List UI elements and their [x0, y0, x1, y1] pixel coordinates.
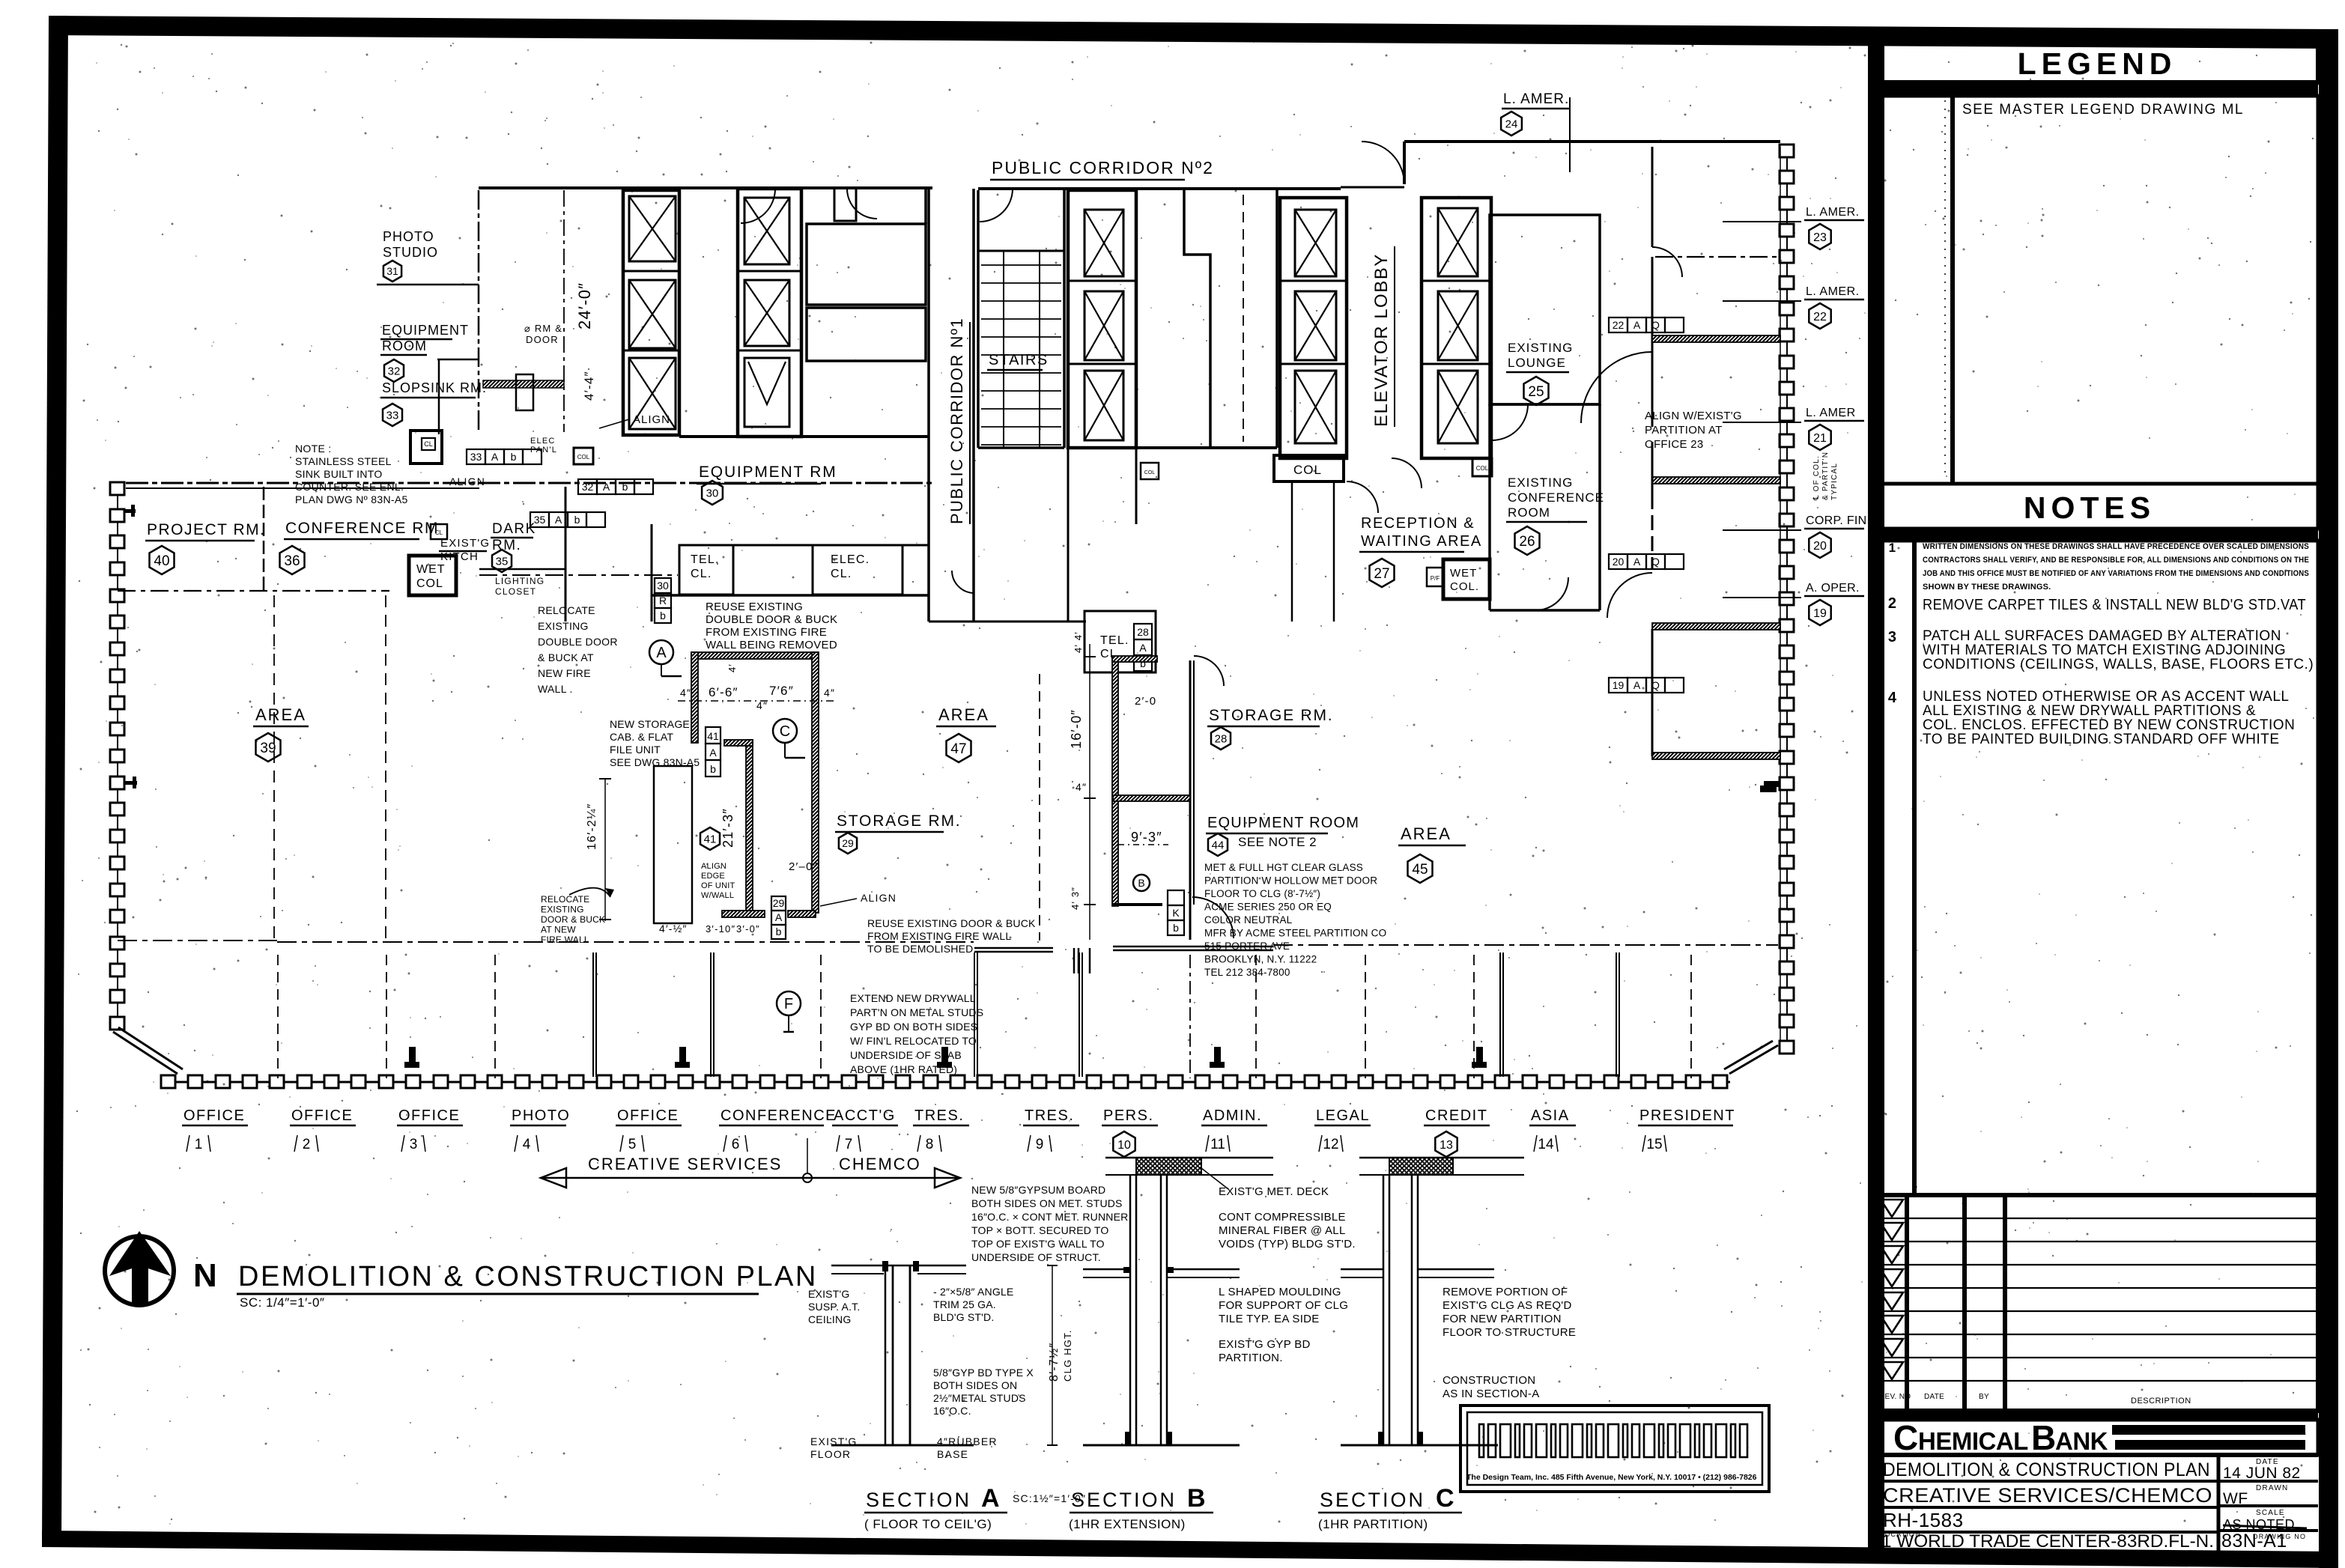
central bank C shaft 3	[1438, 371, 1478, 443]
svg-text:WET: WET	[416, 563, 446, 576]
svg-text:19: 19	[1813, 607, 1827, 620]
svg-text:UNDERSIDE OF STRUCT.: UNDERSIDE OF STRUCT.	[971, 1251, 1101, 1263]
svg-text:2′–0″: 2′–0″	[789, 860, 818, 873]
bottom perimeter column line	[169, 1081, 1730, 1084]
title block date cell	[2217, 1455, 2221, 1552]
svg-text:CL.: CL.	[691, 568, 712, 580]
core top wall right part	[1183, 187, 1277, 190]
svg-text:WAITING AREA: WAITING AREA	[1361, 533, 1482, 550]
a oper number	[1809, 600, 1830, 625]
corp fin leader	[1723, 529, 1801, 531]
storage 29 north hatched wall	[691, 652, 818, 659]
svg-text:25: 25	[1528, 384, 1544, 400]
svg-text:L. AMER: L. AMER	[1806, 407, 1856, 419]
svg-text:EXISTING: EXISTING	[1508, 341, 1573, 355]
svg-text:PUBLIC CORRIDOR Nº2: PUBLIC CORRIDOR Nº2	[992, 158, 1214, 177]
svg-text:33: 33	[470, 451, 482, 463]
existing lounge number	[1524, 377, 1549, 405]
right wing north wall	[1404, 140, 1780, 143]
svg-text:DOOR: DOOR	[526, 334, 559, 345]
left wing top wall	[126, 482, 932, 484]
svg-text:PLAN DWG Nº 83N-A5: PLAN DWG Nº 83N-A5	[295, 493, 408, 505]
svg-text:2: 2	[1888, 595, 1897, 612]
svg-text:A: A	[1633, 319, 1641, 331]
storage 29 east hatched wall	[812, 652, 819, 913]
svg-text:REUSE EXISTING DOOR & BUCK: REUSE EXISTING DOOR & BUCK	[867, 917, 1036, 929]
circle B section marker	[1133, 875, 1150, 891]
svg-text:ADMIN.: ADMIN.	[1203, 1107, 1262, 1124]
svg-text:SECTION: SECTION	[1320, 1489, 1425, 1511]
svg-text:CL.: CL.	[831, 568, 852, 580]
svg-text:RH-1583: RH-1583	[1883, 1509, 1964, 1531]
svg-text:MINERAL FIBER @ ALL: MINERAL FIBER @ ALL	[1219, 1224, 1346, 1237]
door jamb at office front	[1073, 948, 1076, 973]
svg-text:UNLESS NOTED OTHERWISE OR AS A: UNLESS NOTED OTHERWISE OR AS ACCENT WALL	[1923, 689, 2289, 705]
svg-text:31: 31	[386, 265, 398, 277]
svg-text:28: 28	[1137, 626, 1149, 638]
svg-text:4″RUBBER: 4″RUBBER	[937, 1435, 998, 1447]
room above toilets east wall	[924, 189, 927, 224]
svg-text:CL: CL	[424, 440, 433, 448]
svg-text:N: N	[193, 1257, 217, 1294]
svg-text:ALIGN: ALIGN	[701, 862, 726, 871]
svg-text:COL: COL	[1476, 465, 1489, 472]
bottom-right chamfer wall	[1729, 1045, 1778, 1074]
svg-text:DATE: DATE	[1924, 1393, 1944, 1401]
svg-text:ELEC: ELEC	[530, 437, 556, 446]
svg-text:1: 1	[195, 1137, 203, 1152]
svg-text:DESCRIPTION: DESCRIPTION	[2131, 1397, 2191, 1406]
core south wall below closets	[652, 594, 929, 597]
elevator bank 2 walls	[738, 189, 801, 437]
svg-text:NEW FIRE: NEW FIRE	[538, 667, 591, 679]
office front line east	[1273, 944, 1778, 946]
project room number	[150, 546, 175, 574]
bottom-left chamfer wall	[113, 1032, 178, 1074]
svg-text:DRAWN: DRAWN	[2256, 1484, 2288, 1492]
col box under bank B	[1274, 455, 1344, 481]
central bank A shaft 2	[1084, 291, 1123, 360]
storage 28 mid wall	[1113, 795, 1190, 801]
svg-text:16″O.C.: 16″O.C.	[933, 1405, 971, 1417]
col box under bank C	[1472, 458, 1492, 476]
svg-text:CLG HGT.: CLG HGT.	[1062, 1329, 1073, 1382]
public corridor 1 west wall	[927, 189, 930, 622]
svg-text:CONFERENCE: CONFERENCE	[1508, 490, 1604, 505]
area 39 number	[256, 733, 281, 762]
svg-text:ELEVATOR LOBBY: ELEVATOR LOBBY	[1371, 253, 1392, 427]
svg-text:NEW 5/8″GYPSUM BOARD: NEW 5/8″GYPSUM BOARD	[971, 1184, 1105, 1196]
title row divider 1	[1878, 1453, 2318, 1457]
svg-text:NEW STORAGE: NEW STORAGE	[610, 718, 690, 730]
office 13 number	[1435, 1131, 1457, 1157]
bank B bottom wall	[1280, 457, 1347, 460]
svg-text:COL: COL	[1293, 463, 1322, 477]
svg-text:Q: Q	[1651, 319, 1660, 331]
freight elevator bank walls	[623, 190, 679, 435]
svg-text:TRES.: TRES.	[1025, 1107, 1074, 1124]
svg-text:4′-4″: 4′-4″	[582, 371, 596, 401]
svg-text:EXIST'G CLG AS REQ'D: EXIST'G CLG AS REQ'D	[1443, 1299, 1572, 1312]
equipment room 44 number	[1208, 833, 1228, 856]
section B moulding marks	[1123, 1267, 1130, 1273]
tag 20-A-Q	[1609, 554, 1627, 569]
kitchen partition walls	[565, 487, 567, 622]
svg-text:CLOSET: CLOSET	[495, 586, 536, 597]
col corridor walls below bank B	[1291, 481, 1293, 622]
core middle dashed line	[1243, 195, 1244, 442]
central bank A shaft 3	[1084, 371, 1123, 440]
title block logo box	[1878, 1420, 2318, 1455]
section C base marks	[1378, 1432, 1383, 1445]
svg-text:VOIDS (TYP) BLDG ST'D.: VOIDS (TYP) BLDG ST'D.	[1219, 1238, 1356, 1251]
svg-text:FLOOR TO STRUCTURE: FLOOR TO STRUCTURE	[1443, 1326, 1576, 1339]
svg-text:FILE UNIT: FILE UNIT	[610, 744, 661, 756]
equipment room 30 north wall	[679, 435, 929, 438]
bank 2 shaft 3 chevron	[744, 358, 789, 427]
public corridor 1 door arc	[952, 571, 974, 593]
legend left column divider	[1950, 96, 1955, 484]
svg-text:AREA: AREA	[1401, 824, 1451, 843]
svg-text:RELOCATE: RELOCATE	[541, 894, 589, 905]
svg-text:24′-0″: 24′-0″	[575, 282, 594, 329]
storage 28 north hatched wall	[1112, 656, 1157, 662]
design team logo glyphs	[1479, 1424, 1747, 1457]
svg-text:8: 8	[926, 1137, 934, 1152]
office partition stubs	[277, 955, 279, 1078]
storage 29 hex41	[700, 827, 720, 850]
svg-text:WALL BEING REMOVED: WALL BEING REMOVED	[706, 639, 837, 651]
24 foot dimension line	[563, 190, 565, 432]
svg-text:32: 32	[582, 481, 594, 493]
svg-text:22: 22	[1613, 319, 1624, 331]
reception door arc 1	[1347, 481, 1378, 513]
legend title underbar	[1878, 82, 2318, 96]
svg-text:EXTEND NEW DRYWALL: EXTEND NEW DRYWALL	[850, 992, 976, 1004]
svg-text:b: b	[660, 610, 666, 622]
svg-text:2′-0: 2′-0	[1135, 695, 1156, 708]
svg-text:ALIGN: ALIGN	[861, 892, 897, 904]
left perimeter columns	[110, 482, 124, 495]
svg-text:EXISTING: EXISTING	[1508, 475, 1573, 490]
svg-text:KITCH: KITCH	[440, 550, 479, 563]
svg-text:SLOPSINK RM.: SLOPSINK RM.	[382, 380, 487, 395]
office 19 door arc	[1607, 573, 1652, 618]
svg-text:6′-6″: 6′-6″	[709, 685, 738, 699]
a oper leader	[1723, 597, 1801, 598]
svg-text:4: 4	[523, 1137, 531, 1152]
wet column box left wing	[409, 556, 456, 595]
storage 28 east wall	[1189, 660, 1192, 940]
office 10 number	[1113, 1131, 1135, 1157]
svg-text:WET: WET	[1450, 567, 1477, 580]
svg-text:TRIM 25 GA.: TRIM 25 GA.	[933, 1298, 996, 1310]
elec closet room	[813, 545, 902, 595]
sheet border top bar	[49, 16, 2338, 49]
section A angle trim marks	[882, 1261, 888, 1271]
core top wall	[978, 187, 1341, 190]
tel closet room	[679, 545, 733, 595]
svg-text:ALIGN: ALIGN	[449, 475, 485, 487]
svg-text:SC: 1/4″=1′-0″: SC: 1/4″=1′-0″	[240, 1295, 324, 1310]
existing conference room walls	[1488, 404, 1491, 610]
svg-text:P/F: P/F	[1431, 575, 1440, 582]
svg-text:A: A	[1139, 642, 1147, 654]
plan title underline	[237, 1293, 759, 1295]
svg-text:COL: COL	[1144, 470, 1156, 475]
svg-text:PHOTO: PHOTO	[383, 229, 434, 244]
svg-text:6: 6	[732, 1137, 740, 1152]
svg-text:FROM EXISTING FIRE WALL: FROM EXISTING FIRE WALL	[867, 930, 1011, 942]
svg-text:DOUBLE DOOR: DOUBLE DOOR	[538, 636, 618, 648]
freight elevator shaft 3	[629, 358, 676, 429]
svg-text:PARTITION AT: PARTITION AT	[1645, 424, 1723, 437]
svg-text:(1HR PARTITION): (1HR PARTITION)	[1318, 1517, 1428, 1531]
svg-text:3′-10″: 3′-10″	[706, 923, 735, 935]
project/conference partition	[263, 487, 265, 592]
public corridor 1 east wall	[972, 189, 975, 622]
svg-text:LOUNGE: LOUNGE	[1508, 356, 1566, 370]
svg-text:ASIA: ASIA	[1531, 1107, 1570, 1124]
central bank A shaft 1	[1084, 210, 1123, 276]
central bank B walls	[1280, 198, 1347, 458]
svg-text:FOR NEW PARTITION: FOR NEW PARTITION	[1443, 1313, 1562, 1325]
svg-text:W/WALL: W/WALL	[701, 891, 734, 900]
svg-text:PAN'L: PAN'L	[530, 446, 557, 455]
left perimeter column line	[117, 488, 118, 1023]
small col box kitchen	[431, 524, 447, 539]
svg-text:16′-2¼″: 16′-2¼″	[586, 803, 598, 850]
svg-text:FROM EXISTING FIRE: FROM EXISTING FIRE	[706, 626, 827, 639]
svg-text:CONTRACTORS SHALL VERIFY, AND: CONTRACTORS SHALL VERIFY, AND BE RESPONS…	[1923, 556, 2309, 565]
svg-text:1 WORLD TRADE CENTER-83RD.FL-N: 1 WORLD TRADE CENTER-83RD.FL-N.	[1881, 1531, 2214, 1552]
svg-text:PART'N ON METAL STUDS: PART'N ON METAL STUDS	[850, 1006, 983, 1018]
svg-text:L. AMER.: L. AMER.	[1806, 206, 1860, 219]
left perimeter tab column 2	[125, 509, 136, 513]
svg-text:TO BE DEMOLISHED: TO BE DEMOLISHED	[867, 943, 973, 955]
svg-text:BY: BY	[1979, 1393, 1989, 1401]
office 24/23 partition	[1651, 147, 1654, 247]
svg-text:UNDERSIDE OF SLAB: UNDERSIDE OF SLAB	[850, 1049, 962, 1061]
storage 28 west hatched wall	[1112, 657, 1118, 906]
svg-text:CREATIVE SERVICES: CREATIVE SERVICES	[588, 1155, 782, 1173]
reception door arc 2	[1392, 458, 1422, 488]
svg-text:L SHAPED MOULDING: L SHAPED MOULDING	[1219, 1286, 1341, 1298]
equipment room 30 number	[702, 481, 723, 505]
conference room number	[280, 546, 305, 574]
section B deck hatch	[1136, 1158, 1201, 1175]
svg-text:ROOM: ROOM	[382, 338, 427, 353]
equipment room 30 south wall	[679, 544, 929, 547]
svg-text:DEMOLITION & CONSTRUCTION PLAN: DEMOLITION & CONSTRUCTION PLAN	[1883, 1459, 2210, 1480]
notes title underbar	[1878, 529, 2318, 541]
svg-text:COUNTER. SEE ENL.: COUNTER. SEE ENL.	[295, 481, 404, 493]
central bank C shaft 2	[1438, 291, 1478, 360]
stairs west wall	[977, 190, 980, 448]
svg-text:SINK BUILT INTO: SINK BUILT INTO	[295, 468, 383, 480]
svg-text:NOTE :: NOTE :	[295, 443, 331, 455]
wet col small tag	[1427, 568, 1443, 586]
svg-text:OFFICE: OFFICE	[291, 1107, 353, 1124]
section C deck lines	[1359, 1157, 1524, 1159]
area 45 number	[1408, 854, 1433, 883]
right wing window wall line	[1780, 147, 1781, 1041]
stairs room interior lines	[1003, 251, 1004, 448]
section A floor line	[831, 1444, 974, 1447]
section B wall studs	[1129, 1175, 1132, 1445]
svg-text:EXIST'G GYP BD: EXIST'G GYP BD	[1219, 1338, 1311, 1351]
svg-text:CEILING: CEILING	[808, 1313, 851, 1325]
svg-text:A: A	[1633, 679, 1641, 691]
svg-text:DOUBLE DOOR & BUCK: DOUBLE DOOR & BUCK	[706, 613, 837, 626]
core south dashed extension	[479, 574, 678, 576]
svg-text:DOOR & BUCK: DOOR & BUCK	[541, 914, 605, 925]
svg-text:CREDIT: CREDIT	[1425, 1107, 1487, 1124]
L AMER 23 leader	[1723, 221, 1801, 222]
L AMER 23 number	[1809, 224, 1830, 249]
notes title box	[1878, 484, 2318, 529]
svg-text:7′6″: 7′6″	[769, 684, 794, 698]
svg-text:TEL 212 384-7800: TEL 212 384-7800	[1204, 967, 1290, 978]
svg-text:AT NEW: AT NEW	[541, 925, 576, 935]
svg-text:CAB. & FLAT: CAB. & FLAT	[610, 731, 673, 743]
svg-text:LEGAL: LEGAL	[1316, 1107, 1370, 1124]
L AMER 22 number	[1809, 303, 1830, 329]
tel closet 2 room	[1084, 611, 1156, 672]
svg-text:ANK: ANK	[2055, 1427, 2108, 1455]
legend title box	[1878, 43, 2318, 82]
svg-text:FIRE WALL: FIRE WALL	[541, 935, 589, 945]
svg-text:40: 40	[154, 553, 169, 569]
svg-text:29: 29	[773, 897, 785, 909]
office 21 door arc	[1581, 352, 1652, 423]
core banks bottom wall	[1068, 446, 1277, 449]
svg-text:TILE TYP. EA SIDE: TILE TYP. EA SIDE	[1219, 1313, 1320, 1325]
L AMER 24 number	[1501, 112, 1522, 136]
svg-text:TOP × BOTT. SECURED TO: TOP × BOTT. SECURED TO	[971, 1224, 1108, 1236]
svg-text:15: 15	[1646, 1137, 1662, 1152]
section A wall studs	[885, 1265, 887, 1445]
tag 22-A-Q	[1609, 317, 1627, 332]
svg-text:TEL.: TEL.	[1100, 634, 1129, 647]
svg-text:STORAGE RM.: STORAGE RM.	[837, 812, 961, 830]
title row divider 4	[1878, 1531, 2218, 1534]
svg-text:4″: 4″	[680, 687, 691, 699]
svg-text:OF UNIT: OF UNIT	[701, 881, 735, 890]
core wall at 1705	[1275, 190, 1278, 448]
svg-text:EQUIPMENT RM: EQUIPMENT RM	[699, 464, 837, 481]
circle A section marker	[649, 640, 673, 664]
svg-text:16″O.C. × CONT MET. RUNNER: 16″O.C. × CONT MET. RUNNER	[971, 1211, 1128, 1223]
section A ceiling lines	[831, 1265, 966, 1267]
svg-text:℄ OF COL.: ℄ OF COL.	[1812, 455, 1821, 501]
svg-text:BOTH SIDES ON MET. STUDS: BOTH SIDES ON MET. STUDS	[971, 1197, 1123, 1209]
svg-text:WRITTEN DIMENSIONS ON THESE DR: WRITTEN DIMENSIONS ON THESE DRAWINGS SHA…	[1923, 542, 2309, 551]
svg-text:2: 2	[303, 1137, 311, 1152]
svg-text:COL: COL	[416, 577, 443, 590]
svg-text:OFFICE 23: OFFICE 23	[1645, 438, 1704, 451]
toilet room A east of bank 2	[807, 224, 926, 305]
svg-text:DEMOLITION & CONSTRUCTION PLAN: DEMOLITION & CONSTRUCTION PLAN	[238, 1261, 818, 1292]
svg-text:REMOVE CARPET TILES & INSTALL: REMOVE CARPET TILES & INSTALL NEW BLD'G …	[1923, 597, 2306, 613]
svg-text:OFFICE: OFFICE	[183, 1107, 245, 1124]
equipment 44 door tag stack	[1168, 890, 1184, 905]
section C deck hatch	[1389, 1158, 1453, 1175]
conference 26 door arc	[1535, 577, 1568, 610]
existing conference room number	[1515, 526, 1540, 555]
svg-text:B: B	[1138, 877, 1144, 889]
svg-text:SHOWN BY THESE DRAWINGS.: SHOWN BY THESE DRAWINGS.	[1923, 583, 2051, 592]
svg-text:83N-A1: 83N-A1	[2221, 1531, 2287, 1552]
svg-text:LIGHTING: LIGHTING	[495, 576, 544, 586]
svg-text:47: 47	[950, 741, 966, 757]
svg-text:C: C	[1893, 1418, 1918, 1457]
bank 2 shaft 2	[744, 280, 789, 346]
svg-text:14: 14	[1538, 1137, 1554, 1152]
design team logo box	[1460, 1406, 1769, 1492]
svg-text:CONT COMPRESSIBLE: CONT COMPRESSIBLE	[1219, 1211, 1346, 1224]
title row divider 2	[1878, 1480, 2318, 1483]
flat file cabinet rectangle	[654, 766, 692, 923]
svg-text:CONFERENCE RM: CONFERENCE RM	[285, 520, 439, 537]
svg-text:WALL .: WALL .	[538, 683, 573, 695]
svg-text:1: 1	[1889, 541, 1897, 555]
svg-text:EXIST'G: EXIST'G	[810, 1435, 857, 1447]
svg-text:OFFICE: OFFICE	[617, 1107, 679, 1124]
svg-text:30: 30	[657, 580, 669, 592]
svg-text:CREATIVE SERVICES/CHEMCO: CREATIVE SERVICES/CHEMCO	[1883, 1484, 2212, 1507]
right perimeter column line	[1786, 151, 1788, 1047]
svg-text:MET & FULL HGT CLEAR GLASS: MET & FULL HGT CLEAR GLASS	[1204, 862, 1363, 873]
photo studio number	[383, 261, 401, 282]
tag 35-A-b	[530, 512, 549, 527]
svg-text:FLOOR: FLOOR	[810, 1448, 851, 1460]
storage room 28 number	[1211, 727, 1231, 750]
corridor 2 south wall near lobby	[1341, 186, 1404, 189]
dim ticks storage 29 west	[599, 778, 611, 780]
photo studio north wall notch	[834, 188, 856, 221]
relocate arrow	[569, 888, 610, 897]
circle C section marker	[773, 719, 797, 743]
svg-text:41: 41	[707, 730, 719, 742]
svg-text:36: 36	[284, 553, 300, 569]
svg-text:ABOVE (1HR RATED): ABOVE (1HR RATED)	[850, 1063, 957, 1075]
svg-text:GYP BD ON BOTH SIDES: GYP BD ON BOTH SIDES	[850, 1021, 977, 1033]
svg-text:26: 26	[1519, 534, 1535, 550]
tag 29-A-b vertical	[771, 896, 786, 911]
svg-text:& BUCK AT: & BUCK AT	[538, 651, 594, 663]
bottom perimeter riser symbols	[404, 1062, 419, 1068]
L AMER 21 number	[1809, 425, 1830, 450]
svg-text:W/ FIN'L RELOCATED TO: W/ FIN'L RELOCATED TO	[850, 1035, 977, 1047]
revision table row lines	[1878, 1218, 2318, 1219]
svg-text:CHEMCO: CHEMCO	[839, 1155, 921, 1173]
svg-text:12: 12	[1323, 1137, 1338, 1152]
svg-text:WITH MATERIALS TO MATCH EXISTI: WITH MATERIALS TO MATCH EXISTING ADJOINI…	[1923, 642, 2286, 658]
central bank A walls	[1068, 190, 1136, 448]
title row divider 3	[1878, 1506, 2218, 1509]
svg-text:9: 9	[1036, 1137, 1044, 1152]
svg-text:14 JUN 82: 14 JUN 82	[2223, 1465, 2301, 1482]
slopsink door leaf	[516, 374, 533, 410]
svg-text:4″: 4″	[824, 687, 835, 699]
svg-text:5/8″GYP BD TYPE X: 5/8″GYP BD TYPE X	[933, 1367, 1034, 1379]
svg-text:3: 3	[1888, 629, 1897, 645]
revision triangles	[1881, 1200, 1903, 1217]
svg-text:CONSTRUCTION: CONSTRUCTION	[1443, 1374, 1535, 1387]
svg-text:EXISTING: EXISTING	[538, 620, 589, 632]
svg-text:21′-3″: 21′-3″	[721, 808, 735, 848]
